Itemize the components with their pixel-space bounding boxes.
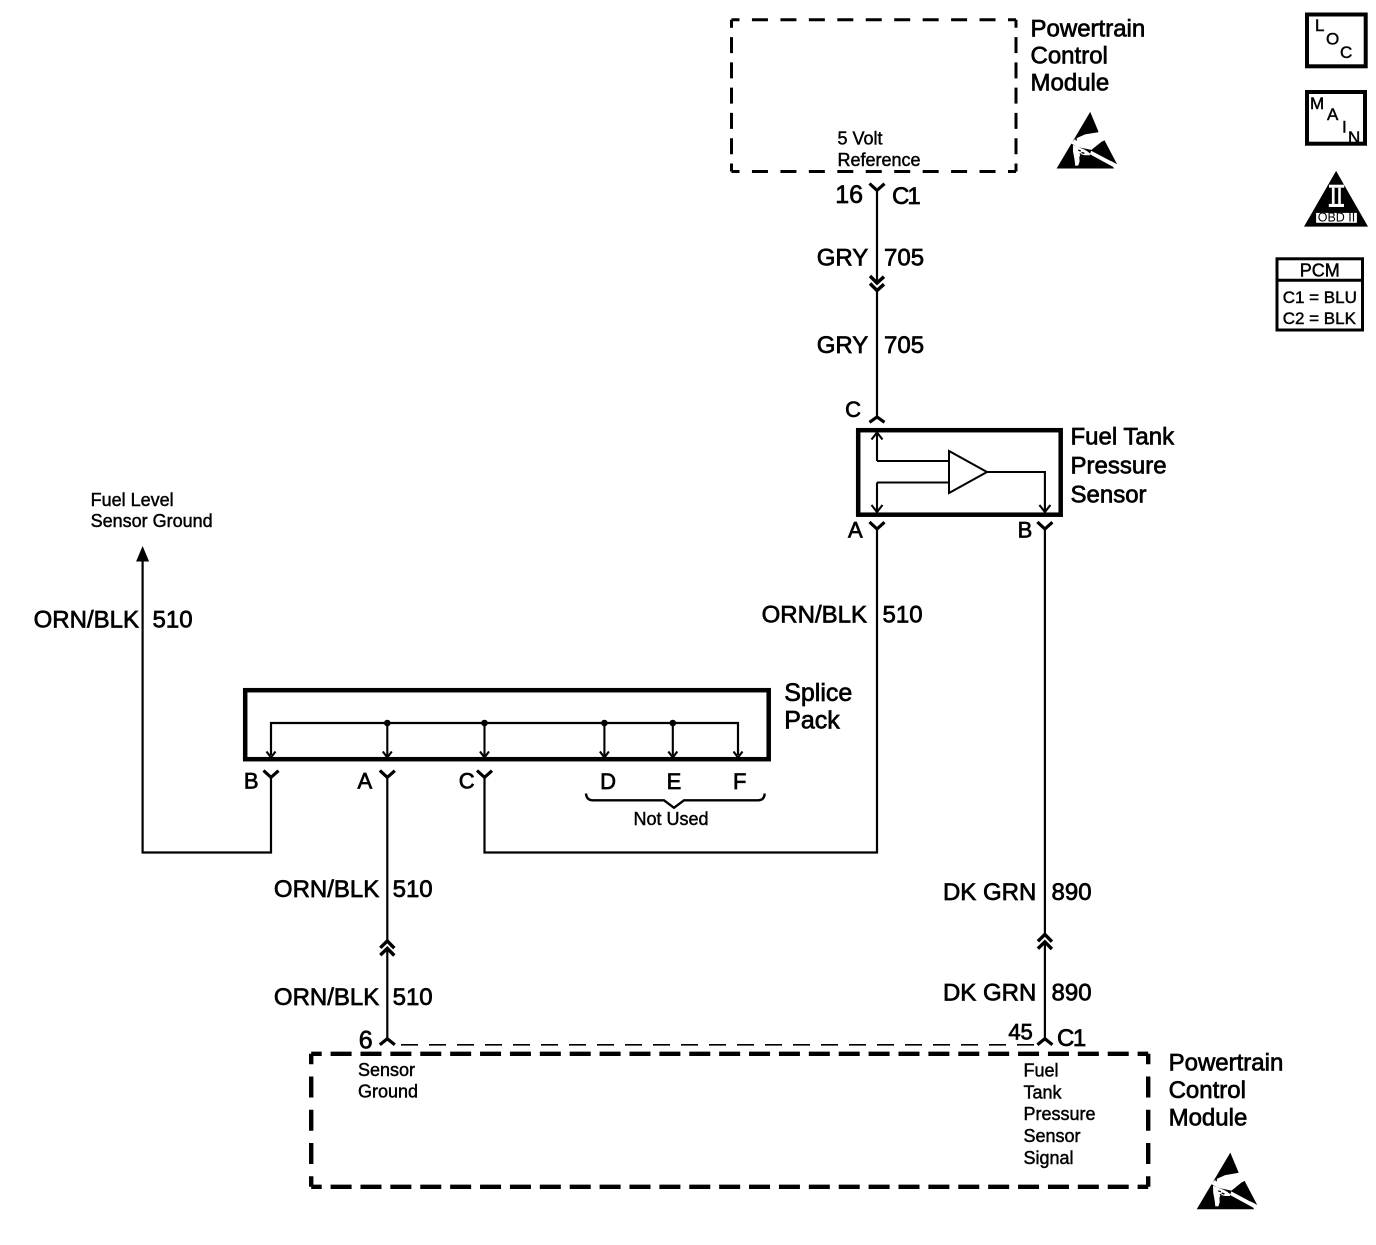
pin 6 connector at PCM bottom <box>380 1039 395 1045</box>
svg-text:Sensor: Sensor <box>358 1060 415 1080</box>
splice drop arrow C <box>483 723 485 756</box>
inline connector (double chevron) on GRY wire <box>870 276 884 283</box>
svg-text:705: 705 <box>884 244 924 271</box>
svg-text:N: N <box>1348 128 1360 147</box>
svg-text:510: 510 <box>153 606 193 633</box>
svg-text:Module: Module <box>1169 1104 1248 1131</box>
svg-text:Powertrain: Powertrain <box>1169 1049 1284 1076</box>
splice drop arrow B <box>267 752 276 758</box>
sensor internal: up arrow to C pin <box>876 434 878 461</box>
svg-text:GRY: GRY <box>817 332 869 359</box>
svg-text:Not Used: Not Used <box>633 809 708 829</box>
svg-text:I: I <box>1342 117 1347 136</box>
svg-text:C: C <box>845 397 861 422</box>
splice junction dot D <box>601 720 608 727</box>
svg-text:Sensor Ground: Sensor Ground <box>91 511 213 531</box>
svg-text:OBD II: OBD II <box>1318 211 1356 225</box>
svg-text:C1: C1 <box>1057 1025 1086 1052</box>
svg-text:E: E <box>667 769 682 794</box>
pin A connector at sensor <box>870 522 885 529</box>
svg-text:Sensor: Sensor <box>1071 482 1147 509</box>
wire DK GRN 890 upper segment from sensor B <box>1044 529 1046 935</box>
svg-text:Control: Control <box>1169 1077 1246 1104</box>
sensor internal: output wire and down arrow to B pin <box>987 472 1045 511</box>
svg-text:Pressure: Pressure <box>1071 453 1167 480</box>
svg-text:Control: Control <box>1031 42 1108 69</box>
MAIN grid code box <box>1307 92 1365 144</box>
splice pin A connector <box>380 771 395 778</box>
splice junction dot E <box>670 720 677 727</box>
PCM connector legend box <box>1277 259 1363 330</box>
svg-text:A: A <box>1327 105 1339 124</box>
svg-text:Pack: Pack <box>784 707 840 735</box>
svg-text:ORN/BLK: ORN/BLK <box>274 984 379 1011</box>
sensor internal: upper input wire <box>877 460 949 462</box>
svg-text:Sensor: Sensor <box>1024 1126 1081 1146</box>
connector C1 thin dashed line <box>401 1044 1034 1046</box>
svg-text:C: C <box>459 769 475 794</box>
ESD symbol (bottom) <box>1197 1153 1258 1210</box>
svg-text:C2 = BLK: C2 = BLK <box>1283 309 1357 328</box>
wire ORN/BLK 510 from splice A down (upper segment) <box>386 777 388 941</box>
svg-text:O: O <box>1326 30 1339 49</box>
splice junction dot A <box>384 720 391 727</box>
op-amp triangle <box>949 451 987 493</box>
svg-text:C: C <box>1340 43 1352 62</box>
LOC grid code box <box>1307 15 1366 67</box>
svg-text:890: 890 <box>1052 979 1092 1006</box>
svg-text:DK GRN: DK GRN <box>943 979 1036 1006</box>
svg-text:B: B <box>244 769 259 794</box>
svg-text:705: 705 <box>884 332 924 359</box>
svg-text:Reference: Reference <box>838 150 921 170</box>
svg-text:ORN/BLK: ORN/BLK <box>762 601 867 628</box>
svg-text:Fuel Level: Fuel Level <box>91 490 174 510</box>
splice drop arrow D <box>603 723 605 756</box>
svg-text:6: 6 <box>359 1027 373 1055</box>
svg-text:D: D <box>600 769 616 794</box>
svg-text:510: 510 <box>393 984 433 1011</box>
svg-text:C1 = BLU: C1 = BLU <box>1283 288 1357 307</box>
splice drop arrow E <box>672 723 674 756</box>
svg-text:890: 890 <box>1052 879 1092 906</box>
wire ORN/BLK 510 from splice A down (lower segment) <box>386 950 388 1039</box>
sensor internal: lower input wire <box>877 481 949 483</box>
svg-text:A: A <box>848 518 863 543</box>
wire DK GRN 890 lower segment <box>1044 943 1046 1039</box>
svg-text:ORN/BLK: ORN/BLK <box>274 876 379 903</box>
svg-text:Fuel Tank: Fuel Tank <box>1071 424 1176 451</box>
splice bus wire <box>271 723 738 755</box>
svg-text:C1: C1 <box>892 183 920 210</box>
splice drop arrow A <box>386 723 388 756</box>
svg-text:16: 16 <box>835 181 863 209</box>
pin C connector at sensor <box>870 417 885 422</box>
inline connector (double chevron) on DK GRN wire <box>1038 934 1052 941</box>
pin 16 / C1 connector at PCM <box>870 184 885 191</box>
splice drop arrow F <box>734 752 743 758</box>
wire GRY 705 lower segment <box>876 290 878 418</box>
svg-text:Signal: Signal <box>1024 1148 1074 1168</box>
pin B connector at sensor <box>1037 522 1052 529</box>
svg-text:Tank: Tank <box>1024 1082 1063 1102</box>
svg-text:510: 510 <box>883 601 923 628</box>
OBD II triangle symbol <box>1304 171 1368 227</box>
svg-text:ORN/BLK: ORN/BLK <box>34 606 139 633</box>
svg-text:M: M <box>1310 94 1324 113</box>
svg-text:Ground: Ground <box>358 1082 418 1102</box>
svg-text:PCM: PCM <box>1300 261 1340 281</box>
svg-text:Powertrain: Powertrain <box>1031 15 1146 42</box>
svg-text:F: F <box>733 769 746 794</box>
svg-text:A: A <box>358 769 373 794</box>
PCM top dashed box <box>732 20 1017 172</box>
svg-text:DK GRN: DK GRN <box>943 879 1036 906</box>
svg-text:5 Volt: 5 Volt <box>838 128 883 148</box>
ground arrow wire to Fuel Level Sensor Ground, to splice B <box>136 546 149 562</box>
PCM bottom dashed box <box>311 1054 1148 1187</box>
sensor internal: down arrow to A pin <box>876 483 878 511</box>
svg-text:Fuel: Fuel <box>1024 1061 1059 1081</box>
svg-text:L: L <box>1315 16 1324 35</box>
svg-text:Pressure: Pressure <box>1024 1104 1096 1124</box>
Not Used bracket <box>586 794 765 808</box>
svg-text:GRY: GRY <box>817 244 869 271</box>
pin 45 / C1 connector at PCM bottom <box>1037 1039 1052 1045</box>
splice junction dot C <box>481 720 488 727</box>
Fuel Tank Pressure Sensor box <box>858 430 1060 515</box>
Splice Pack box <box>245 690 769 759</box>
wire GRY 705 upper segment <box>876 190 878 282</box>
svg-text:510: 510 <box>393 876 433 903</box>
splice pin B connector <box>264 771 279 778</box>
svg-text:Splice: Splice <box>784 679 852 707</box>
splice pin C connector <box>477 771 492 778</box>
svg-text:45: 45 <box>1008 1020 1032 1045</box>
inline connector (double chevron) on splice A wire <box>380 941 394 948</box>
svg-text:B: B <box>1018 518 1033 543</box>
ESD symbol (top) <box>1057 112 1118 169</box>
svg-text:Module: Module <box>1031 69 1110 96</box>
wire ORN/BLK 510 from sensor A down and left to splice C <box>485 529 878 853</box>
